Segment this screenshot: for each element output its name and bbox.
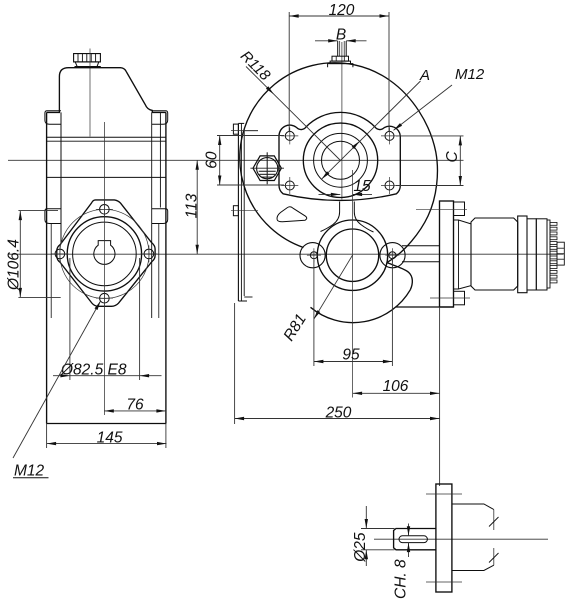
dim 145 left arrow <box>47 442 57 445</box>
left view: upper left pad <box>45 111 61 125</box>
dim 60 bottom extension <box>217 184 284 186</box>
leader R118 <box>246 67 341 162</box>
right view: flange stud hole M12 <box>285 181 294 190</box>
dim 113 line <box>196 160 198 254</box>
right view: housing right bulge outline <box>387 81 437 263</box>
detail: lower bolt hole axis <box>426 581 462 583</box>
right view: flange stud hole M12 <box>385 131 394 140</box>
leader R81 arrow <box>314 310 320 319</box>
PTO main cylinder <box>471 218 518 290</box>
top stud thread line left <box>339 41 341 56</box>
dim Ø25 bottom arrow <box>365 550 368 560</box>
dim 95 line <box>314 361 393 363</box>
dim Ø82.5 left arrow <box>60 374 70 377</box>
dim Ø25 upper tail <box>365 506 367 529</box>
lower boss raised ring <box>317 220 387 290</box>
left view: flange bolt hole <box>55 249 65 259</box>
svg-text:Ø25: Ø25 <box>352 532 369 563</box>
leader M12 (right view) <box>394 85 453 130</box>
left view: body outer left edge <box>46 112 48 423</box>
dim 95 left extension <box>313 260 315 367</box>
dim 60 top extension <box>217 135 284 137</box>
svg-text:Ø106.4: Ø106.4 <box>6 239 23 291</box>
left view: inner right edge <box>151 112 153 318</box>
center line: shaft detail axis <box>374 538 548 540</box>
svg-text:B: B <box>336 26 346 43</box>
center line: breather vertical <box>89 49 91 137</box>
dim Ø82.5 line <box>53 375 162 377</box>
dim 250 left extension <box>234 303 236 424</box>
label M12 underline <box>13 477 49 479</box>
right view: middle circle <box>314 133 368 187</box>
dim Ø106.4 bottom arrow <box>19 288 22 298</box>
dim A upper arrow <box>352 141 360 149</box>
PTO flange lower bolt <box>454 291 465 305</box>
dim 76 left arrow <box>104 409 114 412</box>
left plate bottom cap <box>238 300 247 302</box>
PTO cylinder 2 <box>527 219 536 290</box>
detail: upper bolt hole axis <box>426 493 462 495</box>
PTO flange plate <box>440 201 454 307</box>
dim Ø106.4 top extension <box>18 210 58 212</box>
svg-text:C: C <box>444 151 461 163</box>
left view: square mounting flange (rotated) <box>57 200 155 306</box>
dim 120 line <box>289 15 389 17</box>
center line: lower boss vertical <box>352 170 354 398</box>
leader R118 arrow <box>266 86 274 94</box>
lower boss bolt hole <box>389 252 396 259</box>
left view: joint line 1 <box>47 136 166 138</box>
right view: R81 fin lower arc <box>311 290 411 323</box>
right view: main housing circle R118 <box>240 63 390 248</box>
left view: secondary right lower edge <box>158 224 160 319</box>
breather base line <box>75 66 101 68</box>
left view: upper right pad <box>152 111 168 125</box>
hex plug circle <box>257 158 278 179</box>
dim 15 left tail <box>319 193 341 195</box>
dim 120 left extension <box>288 12 290 131</box>
svg-text:76: 76 <box>126 396 144 413</box>
right view: hex filler plug <box>253 156 281 181</box>
shaft upper line through housing <box>402 245 440 247</box>
right view: casting window <box>277 207 307 222</box>
dim 250 left arrow <box>235 417 245 420</box>
PTO ring collar <box>518 216 527 293</box>
left view: secondary left lower edge <box>50 224 52 319</box>
svg-text:250: 250 <box>325 404 352 421</box>
detail: break tick upper <box>489 517 499 527</box>
leader M12 arrow (right view) <box>394 123 403 130</box>
dim Ø82.5 left extension <box>69 258 71 380</box>
detail: mating housing bottom edge <box>452 565 494 570</box>
PTO flange upper bolt <box>454 202 465 216</box>
dim 120 left arrow <box>289 14 299 17</box>
dim 60 top arrow <box>218 136 221 146</box>
breather cap fins <box>77 54 79 62</box>
lower boss left lobe <box>300 243 325 268</box>
center line: flange vertical <box>103 122 105 415</box>
hex plug horizontal center line <box>250 167 284 169</box>
upper bolt axis tick <box>231 130 258 132</box>
dim C bottom extension <box>396 185 464 187</box>
dim 106 right arrow <box>430 392 440 395</box>
dim 15 right arrow <box>353 193 363 196</box>
left plate upper bolt <box>233 124 238 134</box>
detail: break line lower <box>493 548 495 565</box>
dim Ø25 lower tail <box>365 550 367 566</box>
svg-text:R118: R118 <box>237 48 274 85</box>
svg-text:CH. 8: CH. 8 <box>393 559 410 599</box>
PTO end stub <box>557 242 564 265</box>
detail: break line upper <box>493 510 495 531</box>
dim CH.8 lower tail <box>408 543 410 557</box>
left plate bottom gusset <box>244 296 252 298</box>
leader M12 (left view) <box>13 301 101 458</box>
center line: main vertical axis <box>341 42 343 200</box>
svg-text:113: 113 <box>184 193 201 218</box>
left plate top cap <box>238 122 244 124</box>
dim 76 right arrow <box>156 409 166 412</box>
dim Ø25 bottom extension <box>361 549 395 551</box>
dim 250 line <box>235 418 440 420</box>
svg-text:145: 145 <box>97 429 123 446</box>
leader R81 line <box>314 255 353 319</box>
svg-text:M12: M12 <box>14 463 45 480</box>
dim B right arrow <box>346 39 356 42</box>
left view: joint line 3 <box>47 176 166 178</box>
left view: lower right pad <box>152 209 168 224</box>
dim 145 right arrow <box>157 442 167 445</box>
dim 145 line <box>47 443 167 445</box>
dim Ø82.5 right arrow <box>140 374 150 377</box>
dim 95 right arrow <box>383 360 393 363</box>
svg-text:120: 120 <box>329 2 355 19</box>
breather neck <box>75 62 99 67</box>
dim 106 line <box>353 392 440 394</box>
left view: breather cap body <box>74 54 101 62</box>
top stud right edge <box>345 41 347 56</box>
PTO upper bolt axis <box>416 208 467 210</box>
left view: body bottom edge <box>47 423 166 425</box>
left view: bolt circle centerline <box>60 209 149 298</box>
dim 250 right arrow <box>430 417 440 420</box>
right view: flange stud hole M12 <box>285 131 294 140</box>
dim 95 left arrow <box>314 360 324 363</box>
svg-text:106: 106 <box>383 378 409 395</box>
top stud nut <box>332 56 349 61</box>
svg-text:Ø82.5 E8: Ø82.5 E8 <box>60 361 127 378</box>
left view: joint line 2 <box>47 140 166 142</box>
dim 76 line <box>104 410 166 412</box>
hex plug vertical center line <box>266 152 268 184</box>
PTO serrated spline end: teeth <box>550 222 557 225</box>
svg-text:M12: M12 <box>455 66 485 83</box>
PTO lower bolt axis <box>430 297 470 299</box>
dim C line <box>459 136 461 186</box>
dim 120 right arrow <box>380 14 390 17</box>
left view: body outer right edge <box>165 112 167 423</box>
PTO collar and cone <box>454 220 472 289</box>
lower boss bore circle <box>326 229 378 281</box>
detail: shaft Ø25 <box>394 529 436 550</box>
dim B left tail <box>315 40 338 42</box>
left view: flange bolt hole <box>100 205 110 215</box>
dim C top arrow <box>459 136 462 146</box>
svg-text:60: 60 <box>204 151 221 169</box>
detail: flange plate <box>436 484 452 592</box>
PTO end cap edge <box>547 220 550 288</box>
center line: lower horizontal axis (PTO shaft) <box>8 253 564 255</box>
dim A lower arrow <box>322 171 330 179</box>
left view: flange bolt hole <box>100 293 110 303</box>
hex plug thread line 2 <box>259 173 275 175</box>
dim 15 right tail <box>353 193 372 195</box>
dim 106 left arrow <box>353 392 363 395</box>
dim 76 right extension <box>165 424 167 449</box>
dim B left arrow <box>328 39 338 42</box>
right view: housing/flange bottom edge <box>396 306 454 308</box>
hex plug thread line 1 <box>259 170 276 172</box>
svg-text:A: A <box>419 67 430 84</box>
left plate lower bolt <box>233 206 238 216</box>
detail: mating housing top edge <box>452 504 494 510</box>
right view: left plate mid line <box>240 123 242 301</box>
right view: input flange lobed outline <box>279 112 400 200</box>
left view: flange boss outer circle <box>67 217 141 291</box>
dim 60 bottom arrow <box>218 176 221 186</box>
dim 15 left arrow <box>331 193 341 196</box>
dim C top extension <box>396 135 464 137</box>
lower boss neck left <box>321 202 340 232</box>
dim Ø25 top extension <box>361 528 395 530</box>
right view: fin upper edge <box>387 263 412 290</box>
dim CH.8 top arrow <box>407 526 410 536</box>
shaft lower line through housing <box>402 261 440 263</box>
left view: housing top outline with slanted side <box>47 68 166 113</box>
lower bolt axis tick <box>231 210 258 212</box>
dim CH.8 upper tail <box>408 524 410 536</box>
leader M12 arrow <box>95 301 101 310</box>
dim Ø25 top arrow <box>365 519 368 529</box>
svg-text:95: 95 <box>342 347 360 364</box>
left view: flange bolt hole <box>144 249 154 259</box>
right view: left plate outer edge <box>237 123 239 301</box>
left view: lower left pad <box>45 209 61 224</box>
extension line from PTO flange to shaft detail <box>439 307 441 486</box>
PTO cylinder 3 <box>536 219 547 290</box>
svg-text:15: 15 <box>353 178 371 195</box>
top stud boss <box>328 64 353 68</box>
dim 113 top arrow <box>196 160 199 170</box>
dim Ø106.4 line <box>19 211 21 298</box>
dim C bottom arrow <box>459 176 462 186</box>
dim 60 line <box>219 136 221 186</box>
lower boss right lobe <box>380 243 405 268</box>
top stud thread line right <box>343 41 345 56</box>
lower boss neck right <box>354 202 373 233</box>
dim B right tail <box>346 40 366 42</box>
svg-text:R81: R81 <box>280 311 309 344</box>
dim Ø106.4 top arrow <box>19 211 22 221</box>
dim 95 right extension <box>391 260 393 367</box>
left plate top gusset <box>244 130 258 132</box>
left view: shaft bore with keyway <box>94 241 115 265</box>
dim CH.8 bottom arrow <box>407 543 410 553</box>
right view: left plate inner edge <box>243 129 245 296</box>
top stud left edge <box>337 41 339 56</box>
dim Ø82.5 right extension <box>139 258 141 380</box>
center line: upper horizontal axis <box>8 159 464 161</box>
dim 145 left extension <box>46 424 48 449</box>
left view: secondary right edge <box>159 112 161 207</box>
right view: bearing bore circle <box>303 123 377 197</box>
lower boss bolt hole <box>310 252 317 259</box>
detail: break tick lower <box>489 553 499 563</box>
dim 113 bottom arrow <box>196 245 199 255</box>
dim A diagonal line <box>322 81 421 179</box>
hex plug thread line 3 <box>261 176 274 178</box>
right view: inner bore circle <box>322 141 360 179</box>
detail: key slot CH.8 <box>399 536 427 543</box>
top stud washer <box>330 61 350 64</box>
dim Ø106.4 bottom extension <box>18 296 60 298</box>
dim 120 right extension <box>388 12 390 131</box>
right view: flange stud hole M12 <box>385 181 394 190</box>
left view: flange spigot circle Ø82.5 <box>73 222 137 286</box>
left view: inner left edge <box>60 112 62 243</box>
